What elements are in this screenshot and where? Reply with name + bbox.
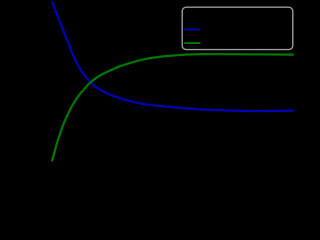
legend sample line green — [184, 42, 200, 44]
curve reactant (blue) — [52, 2, 293, 111]
legend sample line blue — [184, 29, 200, 31]
legend frame — [182, 7, 293, 49]
curve product (green) — [52, 54, 293, 160]
